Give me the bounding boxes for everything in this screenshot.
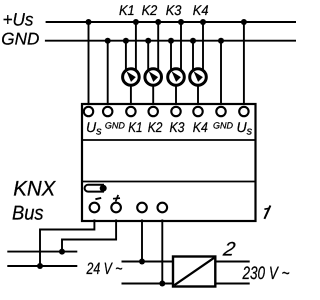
wire K1 drive right lead [135, 22, 137, 72]
230V line lower right [215, 283, 249, 285]
terminal t2 GND [103, 107, 112, 116]
wire c2 to bus plus [62, 220, 116, 252]
transformer diagonal [174, 258, 214, 285]
svg-text:GND: GND [213, 121, 234, 131]
wire c1 to bus minus [40, 220, 94, 267]
KNX bus line upper [7, 251, 77, 253]
junction dot 24V upper [139, 259, 145, 265]
terminal t3 K1 [126, 107, 135, 116]
wire K3 drive left lead [170, 41, 172, 72]
label 1 device [264, 206, 270, 219]
svg-text:K3: K3 [170, 119, 185, 135]
wire K2 drive left lead [147, 41, 149, 72]
svg-text:KNX: KNX [13, 178, 56, 201]
valve drive M3 [168, 69, 185, 86]
supply terminal c3 [137, 203, 147, 213]
svg-text:K3: K3 [166, 2, 182, 18]
svg-text:K2: K2 [148, 119, 163, 135]
junction GND/M4 [190, 38, 196, 44]
svg-text:GND: GND [1, 30, 39, 49]
junction GND/M2 [145, 38, 151, 44]
terminal t4 K2 [149, 107, 158, 116]
terminal t6 K4 [193, 107, 202, 116]
wire K1 drive bottom lead [130, 86, 132, 105]
junction dot 24V lower [159, 281, 165, 287]
valve drive M2 [145, 69, 162, 86]
device box U1 [82, 104, 256, 221]
junction +Us/M3 [178, 19, 184, 25]
junction dot bus upper [59, 249, 65, 255]
svg-text:K1: K1 [128, 119, 142, 135]
wire K3 drive right lead [180, 22, 182, 72]
device divider lower [82, 181, 256, 183]
junction +Us/t1 [86, 19, 92, 25]
svg-text:K4: K4 [193, 119, 208, 135]
terminal t1 Us [84, 107, 93, 116]
valve drive M1 [123, 69, 140, 86]
junction GND/t7 [218, 38, 224, 44]
svg-text:+Us: +Us [3, 10, 34, 30]
valve drive M4 [190, 69, 207, 86]
svg-text:K2: K2 [142, 2, 158, 18]
junction dot bus lower [37, 263, 43, 269]
device divider upper [82, 139, 256, 141]
wire K4 drive bottom lead [197, 86, 199, 105]
wire t2 GND down [107, 41, 109, 104]
KNX bus connector symbol [85, 185, 107, 192]
junction +Us/M2 [155, 19, 161, 25]
wire t7 GND down [220, 41, 222, 104]
GND rail [45, 40, 296, 42]
wire K1 drive left lead [125, 41, 127, 72]
wire t1 Us down [88, 22, 90, 104]
svg-text:K4: K4 [193, 2, 209, 18]
wire c4 to 24V lower [161, 220, 163, 284]
24V line lower left [122, 283, 174, 285]
svg-text:Bus: Bus [12, 203, 44, 225]
svg-text:24 V ~: 24 V ~ [86, 260, 123, 278]
wire K2 drive bottom lead [152, 86, 154, 105]
wire t8 Us down [243, 22, 245, 104]
svg-text:GND: GND [105, 121, 126, 131]
24V line upper left [122, 261, 174, 263]
junction GND/M3 [168, 38, 174, 44]
junction +Us/M4 [200, 19, 206, 25]
+Us rail [46, 21, 296, 23]
transformer T1 box [173, 257, 215, 287]
bus terminal minus sign [95, 198, 101, 199]
terminal t7 GND [216, 107, 225, 116]
supply terminal c4 [158, 203, 168, 213]
junction GND/t2 [105, 38, 111, 44]
wire K4 drive right lead [202, 22, 204, 72]
bus terminal c1 minus [90, 203, 100, 213]
junction +Us/M1 [133, 19, 139, 25]
terminal t8 Us [239, 107, 248, 116]
bus terminal c2 plus [111, 203, 121, 213]
junction +Us/t8 [241, 19, 247, 25]
wire K4 drive left lead [192, 41, 194, 72]
wire c3 to 24V upper [141, 220, 143, 262]
wire K2 drive right lead [157, 22, 159, 72]
wire K3 drive bottom lead [175, 86, 177, 105]
bus terminal plus sign [113, 195, 120, 202]
230V line upper right [215, 261, 249, 263]
junction GND/M1 [123, 38, 129, 44]
terminal t5 K3 [171, 107, 180, 116]
svg-text:230 V ~: 230 V ~ [242, 263, 290, 283]
svg-text:K1: K1 [119, 2, 135, 18]
KNX bus line lower [7, 265, 77, 267]
